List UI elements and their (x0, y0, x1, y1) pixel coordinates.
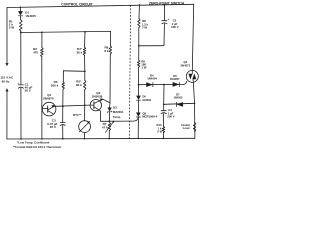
wire left border rail (lower) (6, 91, 8, 139)
node label D1 1N4005 (25, 11, 36, 18)
capacitor C1 (17, 81, 23, 88)
node label Q2 2N3638 (92, 91, 103, 99)
diode D5 (173, 82, 180, 86)
node label Heater Load (181, 123, 191, 130)
wire SCR cathode to bottom rail (137, 117, 139, 138)
node junction bottom rail / RT1 net (84, 138, 86, 140)
triac Q4 (186, 70, 198, 82)
svg-text:300 k: 300 k (51, 84, 59, 88)
node label C1 40uF 50V (25, 82, 33, 92)
capacitor C2 (162, 17, 170, 24)
svg-text:Temp: Temp (113, 115, 121, 119)
svg-text:MZ2361: MZ2361 (113, 110, 124, 114)
capacitor C4 (161, 111, 166, 114)
wire RT1 to bottom rail (84, 133, 86, 140)
svg-text:470: 470 (33, 51, 38, 55)
wire C4 to R10 (163, 114, 165, 127)
svg-text:1N4005: 1N4005 (174, 97, 183, 100)
wire R5 to base node (84, 90, 86, 105)
node junction base node (84, 104, 86, 106)
transistor Q1 (42, 102, 56, 116)
node label Q1 2N4870 (43, 93, 54, 101)
node junction diode row / C4 net (163, 84, 165, 86)
node label C4 1uF 200V (167, 108, 174, 118)
node junction bus-R1 (20, 32, 22, 34)
svg-text:7 W: 7 W (142, 26, 147, 30)
node label R7 47k (102, 122, 108, 129)
wire node A to R5 (84, 71, 86, 80)
node label C3 0.47uF 35V (47, 118, 57, 129)
wire R9 to diode row (138, 67, 140, 84)
svg-text:+: + (17, 81, 19, 85)
wire bus to R2 (41, 32, 43, 47)
diode D6 (136, 96, 140, 100)
resistor R3 (62, 82, 64, 89)
wire C2 down and left to R8 net (139, 24, 165, 46)
resistor R9 (137, 60, 139, 67)
node junction top rail / D1 net (20, 7, 22, 9)
node label Q5 MCR1906-4 (142, 112, 158, 119)
svg-text:1N4005: 1N4005 (25, 14, 36, 18)
node AC input terminal lower (6, 89, 9, 92)
wire top bus (21, 31, 111, 32)
wire Q2 collector down (99, 110, 102, 121)
potentiometer R7 (105, 121, 114, 133)
svg-text:35 V: 35 V (50, 125, 56, 129)
svg-text:60 Hz: 60 Hz (2, 79, 10, 83)
node label R2 470 (33, 47, 38, 54)
node label D4 1N4004 (147, 73, 157, 80)
node junction R8/C2 (138, 45, 140, 47)
wire base node down to RT1 (84, 105, 86, 121)
svg-text:2N4571: 2N4571 (181, 63, 191, 67)
wire bus corner down to R6 (110, 31, 112, 45)
node junction bottom rail / R2 net (41, 138, 43, 140)
wire node A horizontal (63, 70, 84, 73)
wire C1 to bottom rail (20, 88, 22, 139)
svg-text:MCR1906-4: MCR1906-4 (142, 115, 158, 119)
thermistor RT1 (79, 121, 91, 133)
wire from top rail to D1 (19, 7, 21, 11)
wire top rail to R8 (138, 5, 140, 18)
wire D6 to SCR (137, 100, 139, 112)
node junction bottom rail / R7 net (108, 138, 110, 140)
capacitor C3 (60, 123, 65, 126)
wire C4 net vertical (163, 85, 165, 105)
wire diode row (139, 84, 184, 86)
node junction C4 net / D7 wire (163, 103, 165, 105)
svg-text:1N4004: 1N4004 (147, 77, 157, 81)
wire gate wire to SCR (101, 117, 139, 121)
svg-text:5 W: 5 W (9, 25, 15, 29)
node label D5 1N4007 (170, 74, 180, 81)
wire R2 down to bottom rail (41, 57, 43, 139)
node label R6 8k (104, 45, 109, 52)
wire junction to R9 (138, 46, 140, 60)
svg-text:5 W: 5 W (157, 130, 162, 134)
node label R5 82k (76, 80, 82, 87)
node junction bus-R2 (41, 31, 43, 33)
wire right border rail (upper) (192, 4, 193, 70)
diode D3 zener (107, 108, 112, 122)
node junction bottom rail / C1 net (20, 138, 22, 140)
wire R7 to bottom rail (108, 131, 110, 140)
node junction top rail / C2 net (164, 4, 166, 6)
svg-text:1 W: 1 W (141, 65, 146, 69)
node junction gate wire / divider net (108, 120, 110, 122)
transistor Q2 (90, 99, 103, 111)
resistor R2 (41, 48, 44, 57)
node junction R3/C3 tap (62, 105, 64, 107)
node junction top rail / R8 net (139, 4, 141, 6)
svg-text:36 k: 36 k (77, 50, 83, 54)
resistor R5 (84, 80, 86, 90)
node junction collector wire / C3 net (62, 105, 64, 107)
diode D7 (176, 102, 183, 106)
node label R4 36k (77, 47, 83, 54)
wire bus to R4 (84, 32, 87, 47)
node label R3 300k (51, 80, 59, 87)
node AC input terminal upper (6, 63, 9, 66)
svg-text:**Fenwal GB41J1 100 k Thermist: **Fenwal GB41J1 100 k Thermistor (13, 145, 62, 149)
wire junction down to C4 (163, 104, 165, 110)
node junction bottom rail / R10 net (163, 138, 165, 140)
wire section divider (dashed) (129, 5, 130, 139)
node 115VAC source label (0, 76, 14, 84)
node junction bottom rail / SCR net (137, 138, 139, 140)
svg-text:47 k: 47 k (102, 125, 108, 129)
SCR Q5 (136, 113, 140, 117)
wire R6 net to zener D3 (109, 103, 111, 108)
svg-text:D3: D3 (113, 105, 117, 109)
svg-text:8 k: 8 k (104, 49, 109, 53)
resistor R1 (20, 20, 23, 31)
wire R6 down to Q2 emitter node (109, 54, 111, 103)
node label R10 1k 5W (157, 123, 163, 134)
wire Q1 collector to Q2 base (55, 105, 90, 106)
wire junction down to C3 (62, 106, 64, 122)
wire D1/R1 net down to C1 (20, 33, 22, 85)
node junction node A (84, 70, 86, 72)
wire diode row to triac gate (183, 81, 187, 84)
node label R8 1.2k 7W (142, 19, 149, 29)
diode D1 (18, 11, 22, 20)
wire R3 to junction (62, 89, 64, 106)
wire C3 to bottom rail (62, 125, 64, 139)
svg-text:RT1**: RT1** (73, 113, 82, 117)
diode D4 (146, 83, 153, 87)
node label R9 180 1W (141, 59, 146, 69)
svg-text:200 V: 200 V (167, 114, 174, 118)
svg-text:ZERO-POINT SWITCH: ZERO-POINT SWITCH (149, 2, 185, 6)
wire R10 to bottom rail (162, 133, 164, 139)
svg-text:CONTROL CIRCUIT: CONTROL CIRCUIT (61, 3, 93, 7)
wire right border rail (lower) (193, 82, 195, 138)
svg-text:82 k: 82 k (76, 83, 82, 87)
wire top border rail (7, 4, 194, 7)
node label D6 1N4003 (142, 95, 151, 102)
resistor heater load (193, 122, 195, 131)
node junction bottom rail / C3 net (62, 138, 64, 140)
node junction diode row left (138, 84, 140, 86)
resistor R4 (83, 47, 85, 55)
wire node A down to R3 (62, 71, 64, 82)
svg-text:600 V: 600 V (171, 25, 178, 29)
node label Q4 2N4571 (181, 60, 191, 67)
svg-text:Load: Load (183, 126, 190, 130)
svg-text:2N3638: 2N3638 (92, 95, 103, 99)
wire Q2 emitter to R6 net (103, 99, 110, 103)
resistor R8 (138, 18, 140, 28)
wire junction down to D6 (138, 85, 140, 96)
svg-text:1N4007: 1N4007 (170, 77, 180, 81)
wire left border rail (upper) (6, 8, 8, 64)
wire R1 to bus (20, 31, 22, 32)
svg-text:1N4003: 1N4003 (142, 99, 151, 102)
node label R1 1k 5W (9, 19, 15, 29)
wire R8 to junction (138, 28, 140, 46)
node junction bus-R4 (84, 31, 86, 33)
node label D3 MZ2361 Temp (113, 105, 124, 119)
svg-text:+: + (168, 17, 170, 21)
node label D7 1N4005 (174, 92, 183, 99)
wire D7 row (164, 103, 196, 105)
resistor R6 (109, 46, 111, 54)
node label C2 2uF 600V (171, 19, 178, 29)
wire R4 to node A (84, 55, 86, 71)
resistor R10 (162, 126, 164, 132)
wire top rail to C2 (163, 5, 165, 21)
wire bottom border rail (7, 137, 195, 140)
svg-text:50 V: 50 V (25, 88, 31, 92)
svg-text:2N4870: 2N4870 (43, 97, 54, 101)
